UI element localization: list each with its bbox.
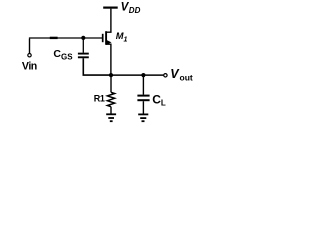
ground (below CL) (138, 114, 148, 121)
wire: thick retrace segment on top rail (50, 37, 58, 39)
node: gate/CGS junction dot (81, 36, 85, 40)
wire: top rail to M1 gate (29, 37, 103, 39)
svg-text:M: M (116, 31, 124, 41)
wire: Vin terminal up to top rail (29, 39, 31, 54)
transistor M1 (103, 9, 112, 76)
svg-text:DD: DD (129, 6, 141, 15)
resistor R1 (107, 75, 114, 113)
svg-text:Vin: Vin (22, 60, 37, 72)
node: source/R1 junction dot (109, 73, 113, 77)
svg-text:CL: CL (152, 92, 166, 107)
ground (below R1) (106, 114, 116, 121)
output terminal Vout (164, 74, 167, 77)
wire: source row to Vout terminal (111, 74, 163, 76)
power VDD bar (103, 6, 118, 8)
wire: junction down to CGS top plate (82, 38, 84, 53)
input terminal Vin (28, 54, 31, 57)
svg-text:R1: R1 (94, 94, 105, 104)
svg-text:1: 1 (124, 36, 128, 43)
capacitor CL (137, 96, 149, 101)
svg-text:CGS: CGS (53, 48, 73, 62)
wire: CL junction down to CL top plate (142, 75, 144, 95)
svg-text:out: out (180, 73, 193, 83)
wire: CGS bottom plate down and right to source row (83, 58, 111, 75)
node: CL junction dot (141, 73, 145, 77)
wire: CL bottom plate to ground (142, 101, 144, 113)
capacitor CGS (78, 54, 89, 58)
